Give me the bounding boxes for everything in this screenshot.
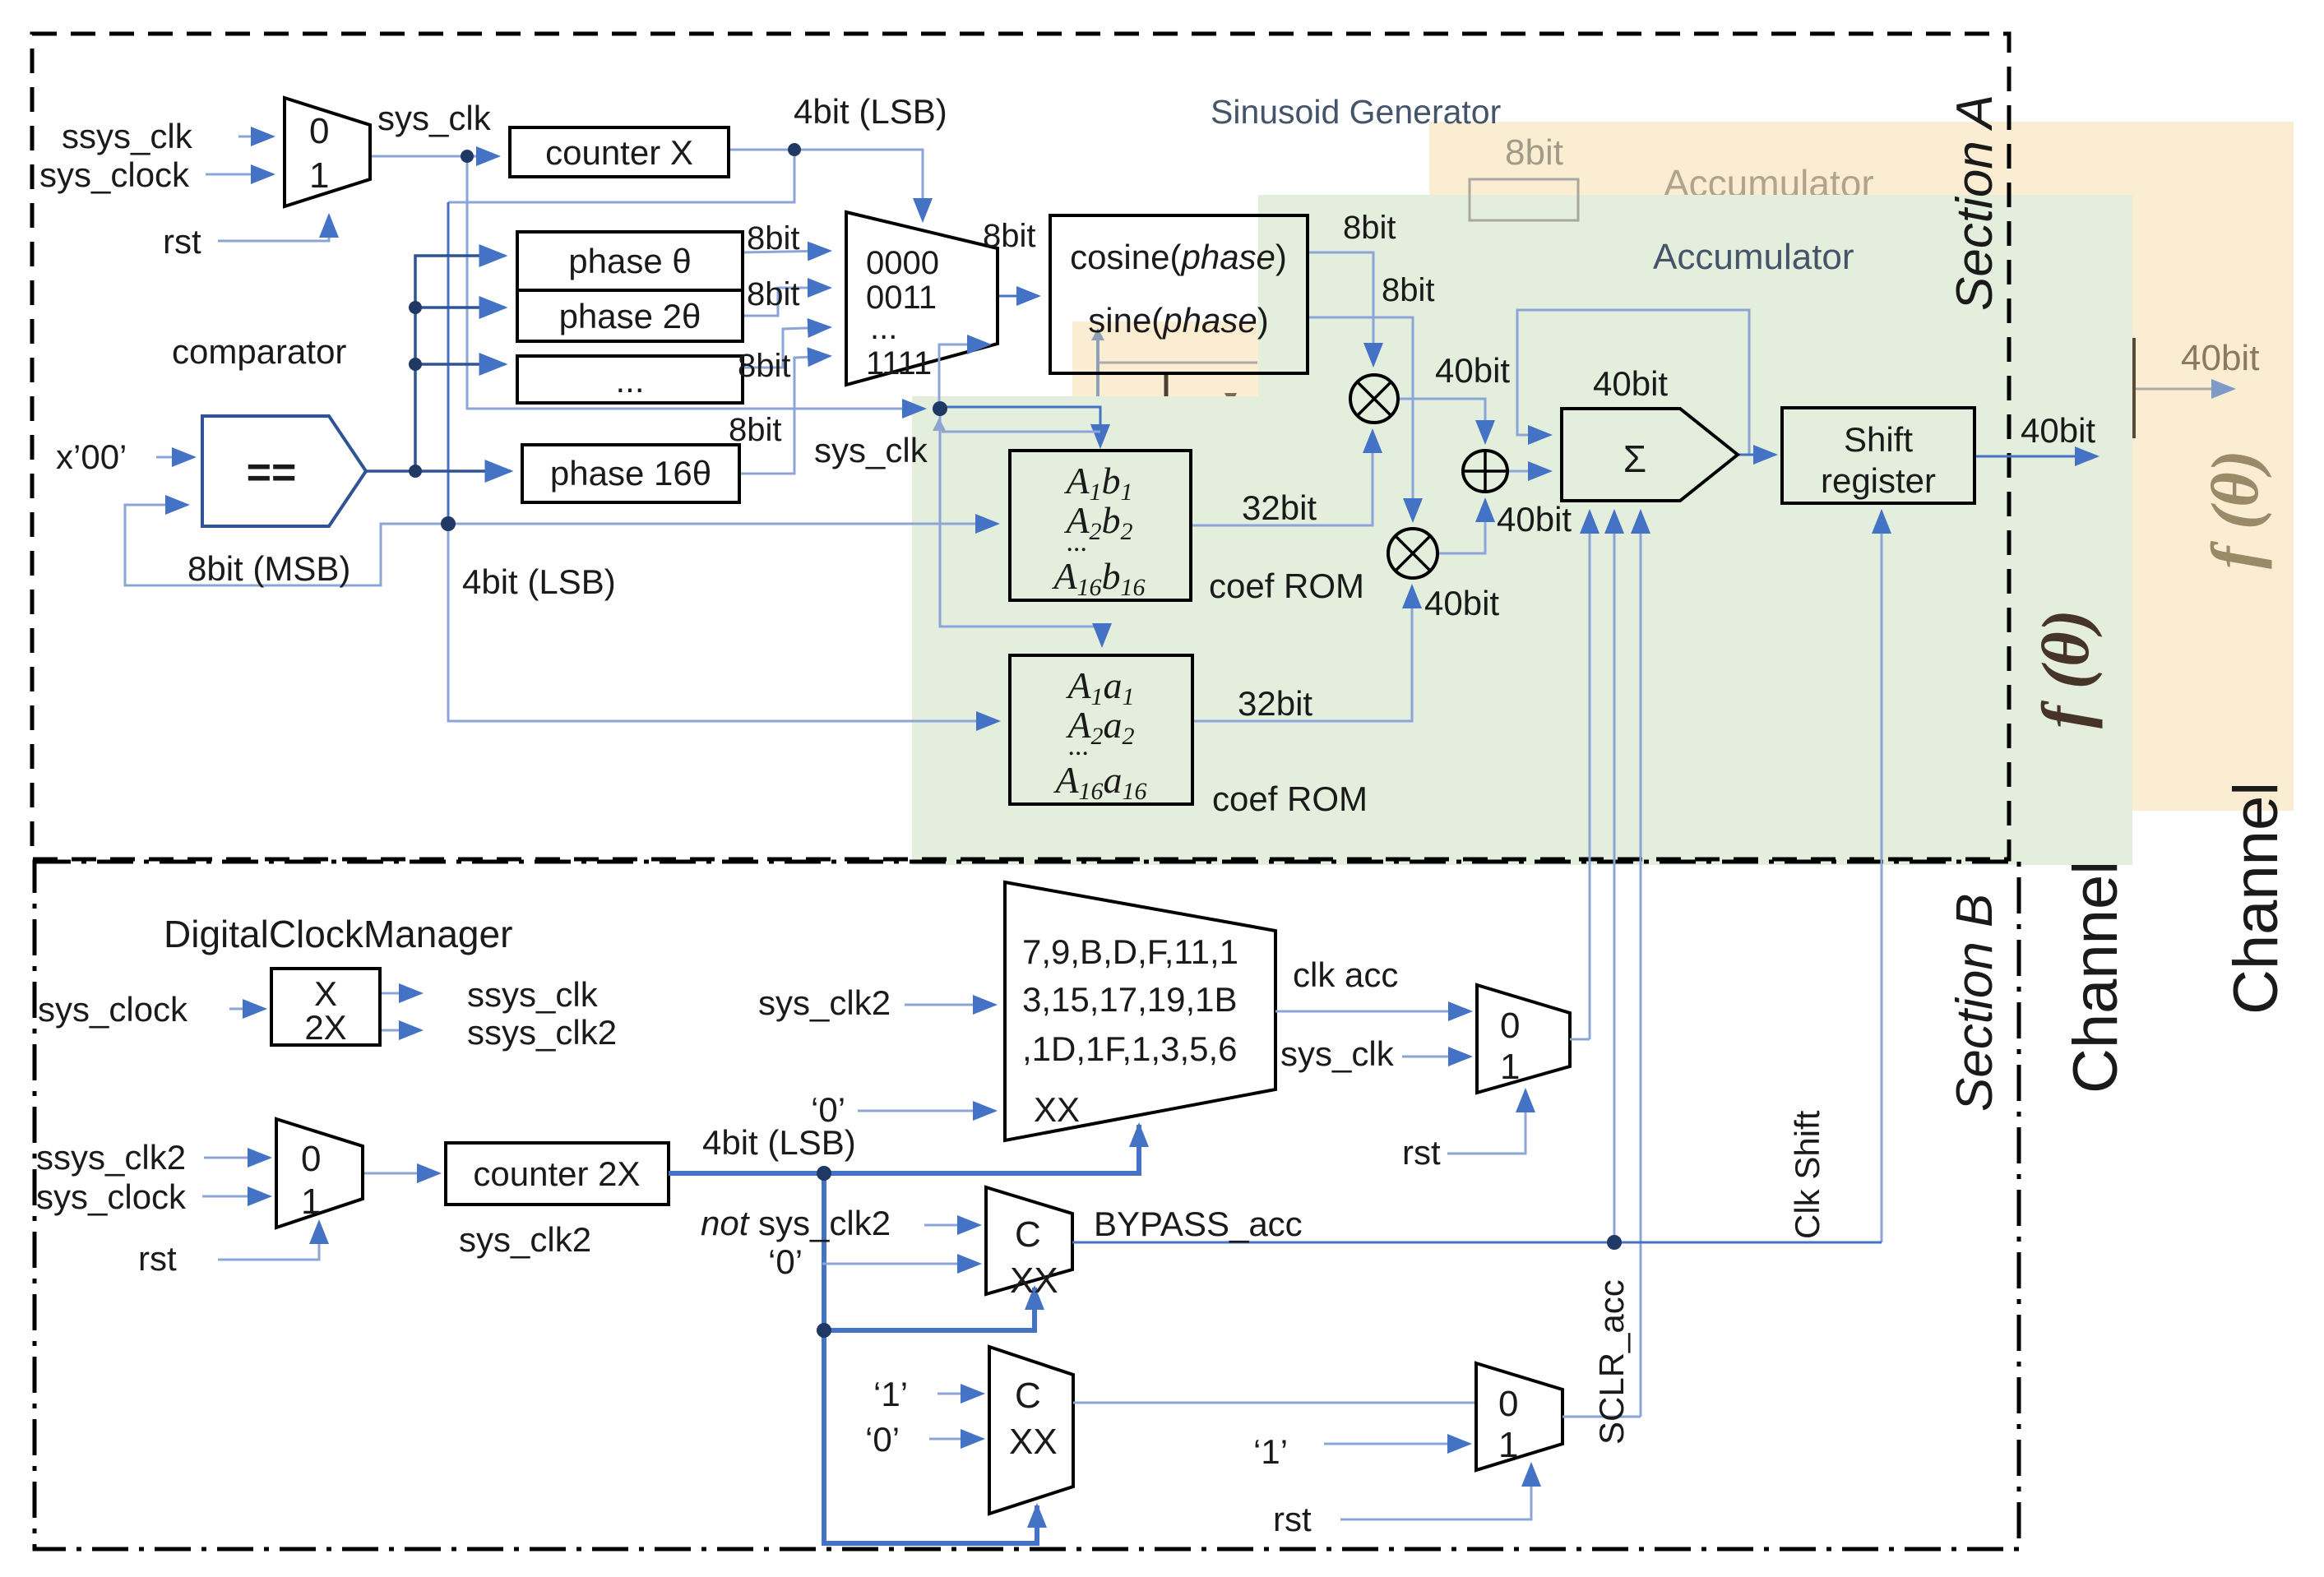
svg-text:sys_clock: sys_clock <box>39 155 190 194</box>
svg-text:rst: rst <box>1402 1133 1441 1172</box>
svg-text:‘1’: ‘1’ <box>1253 1432 1288 1471</box>
svg-text:‘0’: ‘0’ <box>865 1420 900 1459</box>
svg-text:8bit: 8bit <box>1343 210 1396 246</box>
svg-text:8bit: 8bit <box>747 276 800 312</box>
svg-text:0: 0 <box>1498 1384 1518 1424</box>
svg-text:2X: 2X <box>304 1008 346 1047</box>
svg-text:x’00’: x’00’ <box>56 437 127 476</box>
svg-text:8bit: 8bit <box>747 220 800 257</box>
svg-text:rst: rst <box>163 222 201 261</box>
svg-text:DigitalClockManager: DigitalClockManager <box>164 913 512 955</box>
svg-text:40bit: 40bit <box>1497 500 1572 539</box>
svg-text:8bit (MSB): 8bit (MSB) <box>187 549 350 588</box>
svg-text:...: ... <box>870 310 897 346</box>
svg-text:f (θ): f (θ) <box>2028 609 2103 728</box>
svg-text:phase 2θ: phase 2θ <box>559 297 701 335</box>
svg-text:Channel: Channel <box>2061 861 2131 1094</box>
svg-text:sine(phase): sine(phase) <box>1088 301 1268 340</box>
svg-text:phase θ: phase θ <box>568 242 691 280</box>
svg-text:Accumulator: Accumulator <box>1653 237 1854 277</box>
svg-text:32bit: 32bit <box>1238 684 1312 723</box>
svg-text:4bit (LSB): 4bit (LSB) <box>794 92 947 131</box>
svg-text:rst: rst <box>138 1239 177 1278</box>
svg-text:coef ROM: coef ROM <box>1209 567 1364 605</box>
svg-text:‘1’: ‘1’ <box>873 1375 908 1413</box>
svg-text:1: 1 <box>1498 1425 1518 1465</box>
svg-text:ssys_clk2: ssys_clk2 <box>467 1013 617 1052</box>
svg-text:cosine(phase): cosine(phase) <box>1070 238 1287 276</box>
svg-text:Section A: Section A <box>1947 95 2003 311</box>
svg-text:clk acc: clk acc <box>1293 955 1398 994</box>
svg-text:C: C <box>1015 1376 1041 1416</box>
svg-text:counter 2X: counter 2X <box>473 1154 640 1193</box>
svg-text:1: 1 <box>309 155 329 196</box>
svg-text:,1D,1F,1,3,5,6: ,1D,1F,1,3,5,6 <box>1022 1029 1238 1068</box>
svg-text:0: 0 <box>309 111 329 151</box>
svg-text:40bit: 40bit <box>2021 411 2095 450</box>
svg-text:SCLR_acc: SCLR_acc <box>1592 1279 1631 1445</box>
svg-text:register: register <box>1821 461 1936 500</box>
svg-text:BYPASS_acc: BYPASS_acc <box>1094 1205 1303 1243</box>
svg-text:7,9,B,D,F,11,1: 7,9,B,D,F,11,1 <box>1022 932 1238 971</box>
svg-text:f (θ): f (θ) <box>2197 450 2272 569</box>
svg-text:8bit: 8bit <box>1382 272 1435 308</box>
svg-text:40bit: 40bit <box>1435 351 1510 390</box>
svg-text:sys_clock: sys_clock <box>38 990 188 1029</box>
svg-text:sys_clock: sys_clock <box>36 1177 187 1216</box>
svg-text:0: 0 <box>1500 1006 1520 1046</box>
svg-text:phase 16θ: phase 16θ <box>550 454 711 493</box>
svg-text:1111: 1111 <box>866 345 932 382</box>
svg-text:3,15,17,19,1B: 3,15,17,19,1B <box>1022 980 1238 1019</box>
svg-text:32bit: 32bit <box>1242 488 1317 527</box>
svg-text:40bit: 40bit <box>1424 584 1499 622</box>
svg-text:1: 1 <box>1500 1047 1520 1087</box>
svg-text:ssys_clk: ssys_clk <box>62 117 193 155</box>
svg-text:coef ROM: coef ROM <box>1212 779 1368 818</box>
svg-text:Clk Shift: Clk Shift <box>1788 1110 1826 1239</box>
svg-text:Section B: Section B <box>1947 894 2003 1112</box>
svg-text:Σ: Σ <box>1623 437 1646 480</box>
svg-text:XX: XX <box>1009 1422 1058 1462</box>
svg-text:not sys_clk2: not sys_clk2 <box>701 1204 891 1242</box>
svg-text:rst: rst <box>1273 1500 1312 1538</box>
svg-text:‘0’: ‘0’ <box>811 1090 845 1129</box>
svg-text:XX: XX <box>1010 1260 1058 1301</box>
svg-text:8bit: 8bit <box>738 348 791 384</box>
svg-text:ssys_clk: ssys_clk <box>467 975 599 1014</box>
svg-text:...: ... <box>1068 731 1090 761</box>
svg-text:counter X: counter X <box>545 133 693 172</box>
svg-text:4bit (LSB): 4bit (LSB) <box>462 562 616 601</box>
svg-text:XX: XX <box>1034 1090 1080 1129</box>
svg-text:8bit: 8bit <box>729 412 782 448</box>
svg-text:8bit: 8bit <box>983 218 1036 254</box>
svg-text:Shift: Shift <box>1844 420 1913 459</box>
svg-text:0: 0 <box>301 1139 321 1179</box>
svg-text:1: 1 <box>301 1182 321 1222</box>
svg-text:4bit (LSB): 4bit (LSB) <box>702 1123 856 1162</box>
svg-text:40bit: 40bit <box>1593 364 1668 403</box>
svg-text:ssys_clk2: ssys_clk2 <box>36 1138 186 1177</box>
svg-text:C: C <box>1015 1214 1041 1255</box>
svg-text:sys_clk: sys_clk <box>377 99 492 137</box>
svg-text:X: X <box>314 974 337 1013</box>
svg-text:...: ... <box>615 361 644 400</box>
svg-text:8bit: 8bit <box>1505 132 1563 173</box>
svg-text:‘0’: ‘0’ <box>768 1242 803 1281</box>
svg-text:sys_clk: sys_clk <box>1280 1034 1395 1073</box>
svg-text:==: == <box>247 449 297 497</box>
svg-text:sys_clk2: sys_clk2 <box>758 983 891 1022</box>
svg-text:comparator: comparator <box>172 332 346 371</box>
svg-text:...: ... <box>1067 527 1088 557</box>
svg-text:sys_clk2: sys_clk2 <box>459 1220 591 1259</box>
svg-text:sys_clk: sys_clk <box>814 431 928 469</box>
svg-text:Channel: Channel <box>2221 782 2291 1015</box>
svg-text:40bit: 40bit <box>2181 338 2259 378</box>
svg-text:0000: 0000 <box>866 245 939 281</box>
svg-text:Sinusoid Generator: Sinusoid Generator <box>1211 93 1501 131</box>
